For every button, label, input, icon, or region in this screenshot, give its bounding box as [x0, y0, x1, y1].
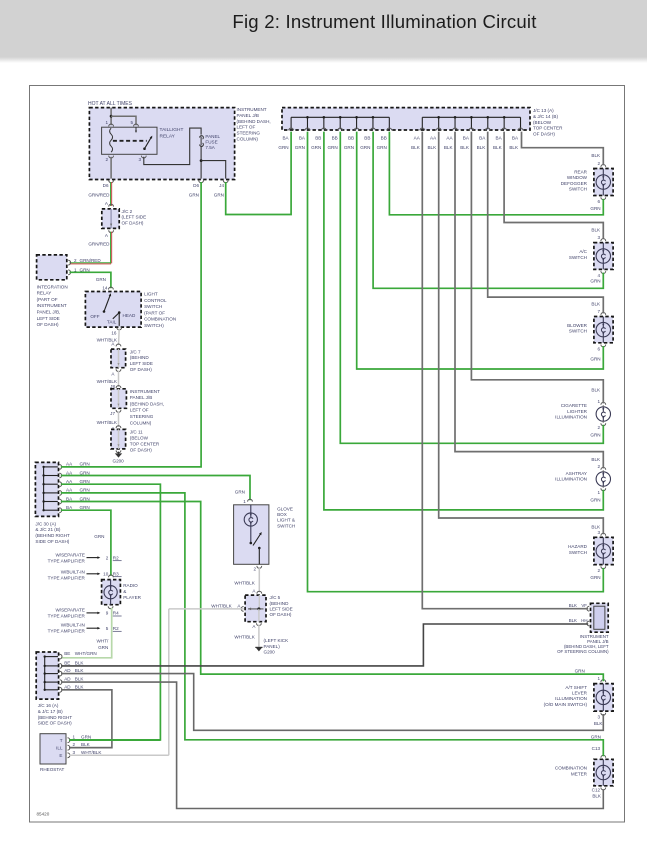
svg-text:GRN: GRN: [377, 145, 387, 150]
svg-text:HAZARD: HAZARD: [568, 544, 588, 549]
svg-text:PANEL J/B: PANEL J/B: [130, 395, 152, 400]
svg-text:(LEFT SIDE: (LEFT SIDE: [122, 215, 147, 220]
svg-text:GRN: GRN: [590, 497, 600, 502]
svg-text:AA: AA: [66, 470, 73, 475]
svg-text:GRN: GRN: [235, 490, 245, 495]
svg-text:(BEHIND: (BEHIND: [270, 601, 290, 606]
svg-text:W/BUILT-IN: W/BUILT-IN: [61, 569, 85, 574]
svg-text:COMBINATION: COMBINATION: [144, 317, 176, 322]
svg-text:WHT/BLK: WHT/BLK: [211, 603, 232, 608]
svg-text:INSTRUMENT: INSTRUMENT: [130, 389, 160, 394]
svg-text:AD: AD: [64, 684, 71, 689]
svg-text:BLK: BLK: [591, 228, 601, 233]
svg-text:J/C 30 (A): J/C 30 (A): [35, 521, 56, 526]
svg-text:R4: R4: [113, 611, 119, 616]
svg-text:HOT AT ALL TIMES: HOT AT ALL TIMES: [88, 101, 133, 107]
svg-text:7.5A: 7.5A: [205, 145, 215, 150]
svg-text:D6: D6: [193, 183, 199, 188]
svg-text:D6: D6: [103, 183, 109, 188]
svg-text:INSTRUMENT: INSTRUMENT: [37, 303, 67, 308]
svg-text:14: 14: [102, 285, 108, 290]
svg-text:INTEGRATION: INTEGRATION: [37, 284, 68, 289]
svg-text:GRN: GRN: [80, 488, 90, 493]
svg-text:2: 2: [74, 258, 77, 263]
svg-text:GRN: GRN: [311, 145, 321, 150]
svg-text:BA: BA: [479, 135, 486, 140]
svg-text:SWITCH: SWITCH: [569, 550, 587, 555]
svg-text:J7: J7: [110, 411, 115, 416]
svg-text:PLAYER: PLAYER: [123, 595, 141, 600]
svg-text:BA: BA: [282, 135, 289, 140]
svg-text:RELAY: RELAY: [160, 133, 176, 139]
svg-text:TYPE AMPLIFIER: TYPE AMPLIFIER: [48, 629, 86, 634]
svg-text:C13: C13: [592, 746, 601, 751]
svg-text:3: 3: [598, 235, 601, 240]
svg-text:WHT/BLK: WHT/BLK: [234, 635, 255, 640]
svg-text:BLOWER: BLOWER: [567, 323, 588, 328]
svg-text:GRN: GRN: [360, 145, 370, 150]
svg-text:INSTRUMENT: INSTRUMENT: [237, 107, 267, 112]
svg-text:R2: R2: [113, 626, 119, 631]
svg-text:BA: BA: [66, 505, 73, 510]
svg-text:3: 3: [73, 750, 76, 755]
svg-text:BA: BA: [299, 135, 306, 140]
svg-text:(LEFT KICK: (LEFT KICK: [264, 638, 290, 643]
svg-text:(BELOW: (BELOW: [130, 436, 149, 441]
svg-text:2: 2: [73, 742, 76, 747]
svg-text:CONTROL: CONTROL: [144, 298, 167, 303]
svg-text:SIDE OF DASH): SIDE OF DASH): [38, 721, 72, 726]
svg-text:BLK: BLK: [591, 388, 601, 393]
svg-text:85420: 85420: [37, 812, 50, 817]
svg-text:C12: C12: [592, 788, 601, 793]
svg-text:(BELOW: (BELOW: [533, 120, 552, 125]
svg-text:COMBINATION: COMBINATION: [555, 766, 587, 771]
svg-text:BA: BA: [496, 135, 503, 140]
svg-text:(BEHIND DASH,: (BEHIND DASH,: [130, 401, 164, 406]
svg-text:BLK: BLK: [81, 742, 91, 747]
svg-text:(PART OF: (PART OF: [144, 310, 165, 315]
svg-text:ILL: ILL: [56, 746, 63, 751]
svg-text:6: 6: [598, 199, 601, 204]
svg-text:2: 2: [598, 464, 601, 469]
svg-text:ILLUMINATION: ILLUMINATION: [555, 477, 587, 482]
svg-text:BLK: BLK: [75, 661, 85, 666]
svg-text:GRN/RED: GRN/RED: [88, 242, 110, 247]
svg-text:TYPE AMPLIFIER: TYPE AMPLIFIER: [48, 613, 86, 618]
svg-text:1: 1: [598, 676, 601, 681]
svg-text:GRN: GRN: [98, 645, 108, 650]
svg-text:GRN: GRN: [344, 145, 354, 150]
svg-text:6: 6: [598, 346, 601, 351]
svg-text:BLK: BLK: [75, 684, 85, 689]
svg-text:G200: G200: [113, 459, 125, 464]
svg-text:GRN: GRN: [575, 669, 585, 674]
svg-text:BLK: BLK: [460, 145, 470, 150]
svg-text:BE: BE: [64, 651, 70, 656]
svg-text:LEFT SIDE: LEFT SIDE: [130, 361, 153, 366]
svg-text:BLK: BLK: [591, 457, 601, 462]
svg-text:VF: VF: [581, 603, 587, 608]
svg-text:GRN: GRN: [590, 357, 600, 362]
svg-text:HH: HH: [581, 618, 587, 623]
svg-text:SWITCH: SWITCH: [277, 523, 295, 528]
svg-text:GRN/RED: GRN/RED: [88, 193, 110, 198]
svg-text:R2: R2: [113, 555, 119, 560]
svg-text:OFF: OFF: [90, 314, 99, 319]
svg-text:OF DASH): OF DASH): [37, 322, 59, 327]
svg-text:HEAD: HEAD: [123, 313, 136, 318]
svg-text:W/SEPARATE: W/SEPARATE: [55, 552, 84, 557]
svg-text:TAILLIGHT: TAILLIGHT: [160, 127, 184, 133]
svg-text:3: 3: [598, 530, 601, 535]
svg-text:J/C 2: J/C 2: [122, 209, 133, 214]
svg-text:STEERING: STEERING: [130, 414, 154, 419]
svg-text:METER: METER: [571, 771, 588, 776]
svg-text:LEFT OF: LEFT OF: [130, 408, 149, 413]
svg-text:BLK: BLK: [592, 793, 602, 798]
svg-text:LIGHTER: LIGHTER: [567, 409, 588, 414]
svg-text:BA: BA: [463, 135, 470, 140]
svg-text:BLK: BLK: [75, 668, 85, 673]
svg-text:& J/C 21 (B): & J/C 21 (B): [35, 527, 60, 532]
svg-text:BA: BA: [512, 135, 519, 140]
svg-text:GRN: GRN: [295, 145, 305, 150]
svg-text:WHT/BLK: WHT/BLK: [234, 580, 255, 585]
svg-text:T: T: [60, 738, 63, 743]
svg-text:GRN: GRN: [590, 206, 600, 211]
svg-text:1: 1: [73, 735, 76, 740]
svg-text:OF STEERING COLUMN): OF STEERING COLUMN): [557, 649, 609, 654]
svg-text:BLK: BLK: [477, 145, 487, 150]
svg-text:5: 5: [106, 626, 109, 631]
svg-text:TOP CENTER: TOP CENTER: [533, 126, 563, 131]
svg-text:WHT/: WHT/: [97, 639, 109, 644]
svg-text:GRN: GRN: [80, 496, 90, 501]
svg-text:TAIL: TAIL: [107, 319, 117, 324]
svg-text:BLK: BLK: [569, 603, 577, 608]
svg-text:GLOVE: GLOVE: [277, 507, 293, 512]
svg-text:E: E: [59, 753, 62, 758]
svg-text:ILLUMINATION: ILLUMINATION: [555, 415, 587, 420]
svg-text:RHEOSTAT: RHEOSTAT: [40, 767, 65, 772]
svg-text:16: 16: [111, 331, 117, 336]
svg-text:J/C 16 (A): J/C 16 (A): [38, 703, 59, 708]
svg-text:AA: AA: [414, 135, 421, 140]
svg-text:LEFT SIDE: LEFT SIDE: [37, 316, 60, 321]
svg-text:SWITCH: SWITCH: [569, 255, 587, 260]
svg-text:DEFOGGER: DEFOGGER: [561, 181, 588, 186]
svg-text:OF DASH): OF DASH): [122, 220, 144, 225]
svg-text:GRN: GRN: [81, 735, 91, 740]
svg-text:A/C: A/C: [579, 249, 587, 254]
svg-text:(BEHIND DASH,: (BEHIND DASH,: [237, 119, 271, 124]
svg-text:J4: J4: [219, 183, 224, 188]
svg-text:GRN: GRN: [590, 575, 600, 580]
svg-text:1: 1: [105, 120, 108, 125]
svg-text:AA: AA: [66, 488, 73, 493]
svg-text:BE: BE: [64, 661, 70, 666]
svg-text:J/C 7: J/C 7: [130, 349, 141, 354]
svg-text:PANEL J/B,: PANEL J/B,: [37, 310, 61, 315]
svg-text:SWITCH: SWITCH: [569, 329, 587, 334]
svg-text:OF DASH): OF DASH): [270, 612, 292, 617]
svg-text:9: 9: [106, 611, 109, 616]
svg-text:3: 3: [138, 157, 141, 162]
svg-text:GRN: GRN: [96, 277, 106, 282]
svg-text:WHT/BLK: WHT/BLK: [97, 420, 118, 425]
svg-text:GRN: GRN: [80, 462, 90, 467]
svg-text:PANEL J/B: PANEL J/B: [237, 113, 259, 118]
svg-text:BLK: BLK: [594, 721, 604, 726]
svg-text:LEVER: LEVER: [572, 691, 588, 696]
svg-text:GRN: GRN: [327, 145, 337, 150]
svg-text:GRN: GRN: [214, 193, 224, 198]
svg-text:2: 2: [598, 425, 601, 430]
svg-text:FUSE: FUSE: [205, 140, 217, 145]
svg-text:G200: G200: [264, 650, 276, 655]
svg-text:10: 10: [103, 571, 109, 576]
svg-text:GRN: GRN: [590, 432, 600, 437]
svg-text:BOX: BOX: [277, 512, 287, 517]
svg-text:WHT/GRN: WHT/GRN: [75, 651, 97, 656]
svg-text:SWITCH: SWITCH: [569, 187, 587, 192]
svg-text:W/SEPARATE: W/SEPARATE: [55, 607, 84, 612]
svg-text:2: 2: [105, 157, 108, 162]
svg-text:COLUMN): COLUMN): [237, 137, 259, 142]
svg-text:1: 1: [598, 399, 601, 404]
svg-text:GRN: GRN: [94, 534, 104, 539]
svg-text:GRN: GRN: [80, 505, 90, 510]
svg-text:TYPE AMPLIFIER: TYPE AMPLIFIER: [48, 575, 86, 580]
svg-text:BLK: BLK: [591, 302, 601, 307]
svg-text:OF DASH): OF DASH): [130, 447, 152, 452]
svg-text:ASHTRAY: ASHTRAY: [566, 471, 587, 476]
svg-text:WINDOW: WINDOW: [567, 175, 588, 180]
svg-text:BB: BB: [332, 135, 338, 140]
svg-text:(BEHIND RIGHT: (BEHIND RIGHT: [35, 533, 70, 538]
svg-text:GRN: GRN: [80, 479, 90, 484]
svg-text:OF DASH): OF DASH): [130, 367, 152, 372]
svg-text:REAR: REAR: [574, 169, 587, 174]
svg-text:BB: BB: [364, 135, 370, 140]
svg-text:SWITCH): SWITCH): [144, 323, 164, 328]
svg-text:GRN: GRN: [591, 735, 601, 740]
svg-text:SWITCH: SWITCH: [144, 304, 162, 309]
svg-text:(BEHIND RIGHT: (BEHIND RIGHT: [38, 715, 73, 720]
svg-text:4: 4: [598, 273, 601, 278]
svg-text:2: 2: [598, 161, 601, 166]
svg-text:& J/C 17 (B): & J/C 17 (B): [38, 709, 63, 714]
svg-text:BLK: BLK: [444, 145, 454, 150]
svg-text:LEFT OF: LEFT OF: [237, 125, 256, 130]
svg-text:BB: BB: [381, 135, 387, 140]
svg-text:GRN: GRN: [80, 470, 90, 475]
svg-text:BLK: BLK: [411, 145, 421, 150]
svg-text:BLK: BLK: [509, 145, 519, 150]
svg-text:BLK: BLK: [427, 145, 437, 150]
svg-text:AA: AA: [66, 462, 73, 467]
svg-text:7: 7: [598, 309, 601, 314]
svg-text:GRN/RED: GRN/RED: [80, 258, 102, 263]
svg-text:GRN: GRN: [189, 193, 199, 198]
svg-text:BB: BB: [348, 135, 354, 140]
svg-text:TYPE AMPLIFIER: TYPE AMPLIFIER: [48, 558, 86, 563]
svg-text:GRN: GRN: [278, 145, 288, 150]
svg-text:CIGARETTE: CIGARETTE: [561, 403, 587, 408]
svg-text:1: 1: [598, 490, 601, 495]
svg-text:WHT/BLK: WHT/BLK: [97, 337, 118, 342]
svg-text:RADIO: RADIO: [123, 583, 138, 588]
svg-text:PANEL: PANEL: [205, 134, 220, 139]
svg-text:AA: AA: [430, 135, 437, 140]
svg-text:3: 3: [598, 715, 601, 720]
svg-text:AD: AD: [64, 668, 71, 673]
svg-text:GRN: GRN: [590, 279, 600, 284]
svg-text:LEFT SIDE: LEFT SIDE: [270, 607, 293, 612]
svg-text:(BEHIND: (BEHIND: [130, 355, 150, 360]
svg-text:R3: R3: [113, 571, 119, 576]
svg-text:BB: BB: [315, 135, 321, 140]
svg-text:ILLUMINATION: ILLUMINATION: [555, 696, 587, 701]
svg-text:BLK: BLK: [591, 153, 601, 158]
svg-text:2: 2: [253, 567, 256, 572]
svg-text:PANEL): PANEL): [264, 644, 281, 649]
svg-text:(PART OF: (PART OF: [37, 297, 58, 302]
svg-text:Fig 2: Instrument Illumination: Fig 2: Instrument Illumination Circuit: [232, 11, 537, 32]
svg-text:LIGHT: LIGHT: [144, 292, 158, 297]
svg-text:2: 2: [106, 555, 109, 560]
svg-text:AD: AD: [64, 677, 71, 682]
svg-text:& J/C 14 (B): & J/C 14 (B): [533, 114, 558, 119]
svg-text:SIDE OF DASH): SIDE OF DASH): [35, 539, 69, 544]
svg-text:LIGHT &: LIGHT &: [277, 518, 295, 523]
svg-text:TOP CENTER: TOP CENTER: [130, 441, 160, 446]
svg-text:BLK: BLK: [569, 618, 577, 623]
svg-text:A/T SHIFT: A/T SHIFT: [565, 685, 587, 690]
svg-text:5: 5: [130, 120, 133, 125]
svg-text:COLUMN): COLUMN): [130, 420, 152, 425]
svg-text:AA: AA: [446, 135, 453, 140]
svg-text:STEERING: STEERING: [237, 131, 261, 136]
svg-text:WHT/BLK: WHT/BLK: [81, 750, 102, 755]
svg-text:J/C 13 (A): J/C 13 (A): [533, 108, 554, 113]
svg-text:BLK: BLK: [75, 677, 85, 682]
svg-text:J/C 5: J/C 5: [270, 595, 281, 600]
svg-text:BLK: BLK: [493, 145, 503, 150]
svg-text:2: 2: [598, 568, 601, 573]
svg-text:(O/D MAIN SWITCH): (O/D MAIN SWITCH): [544, 702, 588, 707]
svg-text:RELAY: RELAY: [37, 291, 52, 296]
svg-text:&: &: [123, 589, 126, 594]
svg-text:W/BUILT-IN: W/BUILT-IN: [61, 623, 85, 628]
svg-text:OF DASH): OF DASH): [533, 132, 555, 137]
svg-text:BLK: BLK: [591, 524, 601, 529]
svg-text:AA: AA: [66, 479, 73, 484]
svg-text:BA: BA: [66, 496, 73, 501]
svg-text:J/C 11: J/C 11: [130, 430, 143, 435]
svg-text:1: 1: [243, 499, 246, 504]
